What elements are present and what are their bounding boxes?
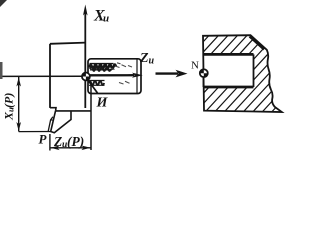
- svg-text:и: и: [149, 56, 155, 67]
- svg-text:N: N: [191, 60, 199, 72]
- svg-text:и: и: [103, 13, 109, 25]
- svg-text:P: P: [39, 132, 48, 147]
- svg-text:(P): (P): [2, 93, 16, 108]
- svg-text:И: И: [96, 96, 109, 111]
- svg-text:Z: Z: [139, 51, 149, 66]
- svg-text:(P): (P): [67, 134, 84, 149]
- svg-text:Z: Z: [53, 134, 62, 149]
